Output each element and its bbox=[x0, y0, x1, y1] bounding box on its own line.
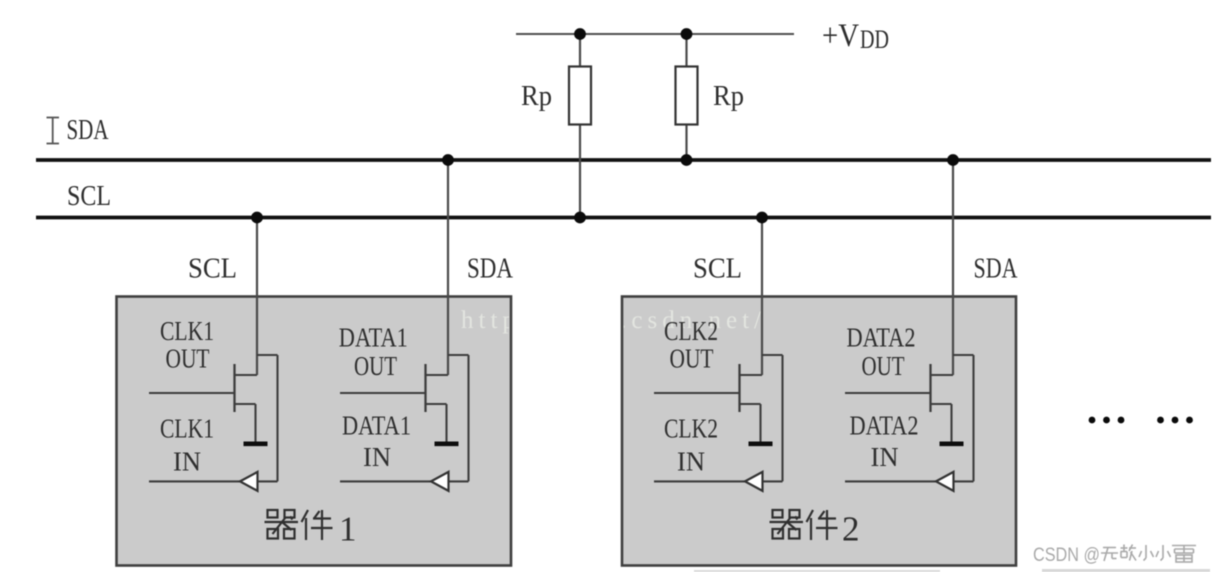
svg-text:DATA1: DATA1 bbox=[339, 323, 408, 353]
svg-text:CSDN @: CSDN @ bbox=[1033, 545, 1100, 566]
svg-text:IN: IN bbox=[677, 447, 705, 477]
svg-text:OUT: OUT bbox=[670, 344, 714, 374]
svg-text:IN: IN bbox=[173, 447, 201, 477]
svg-text:DATA1: DATA1 bbox=[342, 411, 411, 441]
svg-text:Rp: Rp bbox=[521, 81, 552, 112]
svg-text:DATA2: DATA2 bbox=[847, 323, 916, 353]
svg-text:2: 2 bbox=[842, 510, 860, 549]
svg-text:CLK2: CLK2 bbox=[664, 316, 718, 346]
svg-text:IN: IN bbox=[871, 442, 899, 472]
svg-text:SDA: SDA bbox=[467, 253, 513, 285]
svg-text:SDA: SDA bbox=[67, 115, 110, 146]
svg-text:1: 1 bbox=[339, 510, 357, 549]
svg-text:OUT: OUT bbox=[862, 351, 905, 381]
svg-text:Rp: Rp bbox=[713, 81, 744, 112]
svg-text:http://blog.csdn.net/: http://blog.csdn.net/ bbox=[461, 307, 766, 334]
svg-text:OUT: OUT bbox=[354, 351, 397, 381]
svg-text:OUT: OUT bbox=[166, 344, 210, 374]
svg-text:CLK1: CLK1 bbox=[160, 316, 214, 346]
svg-text:SCL: SCL bbox=[67, 181, 111, 212]
svg-text:SCL: SCL bbox=[188, 253, 237, 285]
svg-text:CLK2: CLK2 bbox=[664, 414, 718, 444]
svg-text:CLK1: CLK1 bbox=[160, 414, 214, 444]
svg-text:DD: DD bbox=[860, 25, 889, 54]
svg-text:IN: IN bbox=[363, 442, 391, 472]
svg-text:+V: +V bbox=[822, 18, 859, 54]
svg-text:SDA: SDA bbox=[974, 253, 1018, 285]
svg-text:DATA2: DATA2 bbox=[850, 411, 919, 441]
svg-text:SCL: SCL bbox=[693, 253, 742, 285]
